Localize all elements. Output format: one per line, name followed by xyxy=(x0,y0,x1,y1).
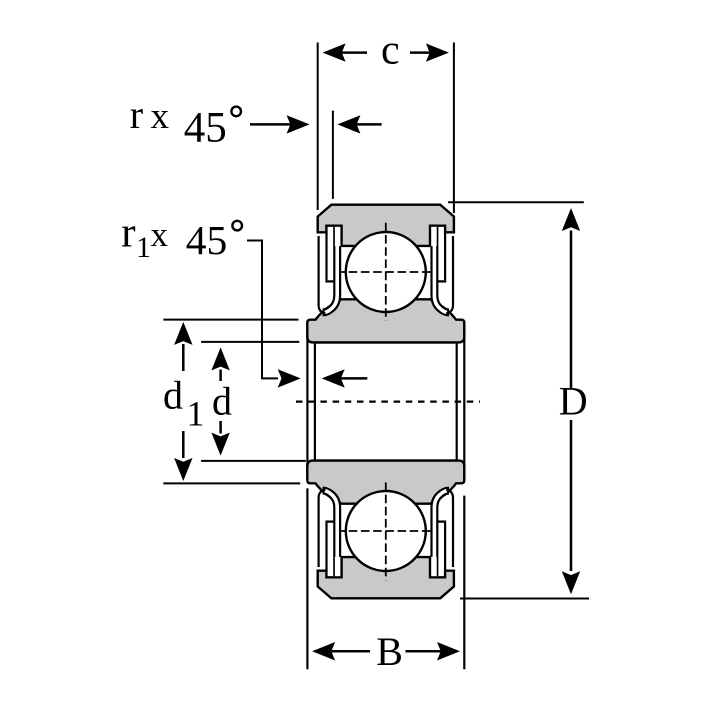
dimension d1 xyxy=(163,320,300,484)
svg-text:x: x xyxy=(151,215,169,254)
up arrow xyxy=(562,208,580,231)
dimension r1 x 45 xyxy=(121,209,367,387)
right arrow xyxy=(437,642,460,660)
extension line right xyxy=(453,43,455,214)
left arrow xyxy=(312,642,335,660)
seal, bottom-right xyxy=(431,490,453,576)
extension line top xyxy=(448,201,584,203)
bearing axis centerline xyxy=(296,401,480,403)
seal lip strip xyxy=(434,491,449,576)
seal pocket cap line xyxy=(325,280,334,282)
right arrow xyxy=(426,43,449,61)
svg-text:x: x xyxy=(151,96,170,137)
dimension D xyxy=(448,202,589,598)
opposing arrow xyxy=(337,115,360,133)
svg-text:D: D xyxy=(559,378,588,423)
leader line xyxy=(247,241,278,379)
up arrow xyxy=(211,347,229,370)
down arrow xyxy=(562,571,580,594)
ball centerline crosshair, bottom xyxy=(337,482,437,580)
extension line top xyxy=(201,341,299,343)
seal outboard face line xyxy=(319,236,326,313)
seal lip strip xyxy=(323,491,338,576)
seal, top-left xyxy=(319,227,341,313)
seal pocket cap line xyxy=(437,280,446,282)
seal pocket cap line xyxy=(325,520,334,522)
seal outboard face line xyxy=(446,490,453,567)
bore outline xyxy=(315,343,457,461)
extension line bottom xyxy=(201,460,306,462)
svg-text:45: 45 xyxy=(184,104,227,151)
inner ring, bottom cross-section xyxy=(307,461,464,504)
ball, top xyxy=(346,232,426,312)
seal lip strip xyxy=(323,227,338,312)
seal groove wall line xyxy=(325,523,327,571)
svg-text:d: d xyxy=(163,372,183,417)
seal groove wall line xyxy=(444,232,446,280)
chamfer edge extension line xyxy=(332,111,334,199)
extension line top xyxy=(163,319,298,321)
seal groove wall line xyxy=(444,523,446,571)
down arrow xyxy=(211,433,229,456)
leader arrow xyxy=(250,123,294,126)
left arrow xyxy=(323,43,346,61)
svg-text:45: 45 xyxy=(186,217,228,263)
extension line bottom xyxy=(460,598,589,600)
ball centerline crosshair, top xyxy=(337,223,437,321)
outer ring, top cross-section xyxy=(318,205,454,246)
seal pocket cap line xyxy=(437,520,446,522)
dimension d xyxy=(201,342,306,461)
inner ring, top cross-section xyxy=(307,299,464,342)
leader arrow xyxy=(278,369,301,387)
up arrow xyxy=(174,322,192,345)
extension line left xyxy=(317,43,319,211)
seal lip strip xyxy=(434,227,449,312)
extension line right upper xyxy=(463,322,465,480)
dimension c xyxy=(318,27,454,213)
seal, bottom-left xyxy=(319,490,341,576)
extension line left lower xyxy=(306,488,308,669)
outer ring, bottom cross-section xyxy=(318,557,454,598)
svg-text:1: 1 xyxy=(136,231,151,264)
extension line right lower xyxy=(463,496,465,670)
dimension r x 45 xyxy=(130,92,382,199)
svg-text:B: B xyxy=(376,629,403,674)
svg-text:1: 1 xyxy=(187,394,205,434)
opposing arrow xyxy=(322,369,345,387)
svg-text:c: c xyxy=(381,27,400,73)
seal groove wall line xyxy=(325,232,327,280)
seal outboard face line xyxy=(319,490,326,567)
seal outboard face line xyxy=(446,236,453,313)
down arrow xyxy=(174,458,192,481)
extension line bottom xyxy=(163,482,300,484)
svg-text:r: r xyxy=(121,209,135,256)
svg-text:d: d xyxy=(212,378,232,423)
extension line left upper xyxy=(306,322,308,480)
ball, bottom xyxy=(346,491,426,571)
seal, top-right xyxy=(431,227,453,313)
svg-text:r: r xyxy=(130,92,143,137)
dimension B xyxy=(307,322,464,674)
